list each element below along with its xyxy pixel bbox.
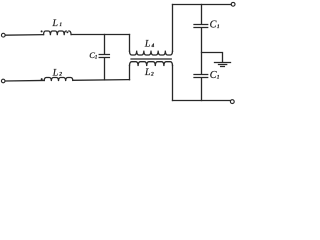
svg-text:C: C	[210, 70, 217, 81]
svg-text:2: 2	[151, 71, 154, 77]
svg-text:L: L	[52, 18, 58, 29]
transformer secondary right lead	[172, 65, 174, 100]
capacitor C1 top lead	[104, 35, 106, 55]
transformer primary left lead	[129, 35, 131, 52]
capacitor C2 plates	[194, 25, 208, 28]
transformer core	[131, 58, 171, 60]
capacitor C1 plates	[99, 55, 109, 58]
capacitor C3 plates	[194, 75, 208, 78]
wire top-right rail	[173, 4, 232, 6]
ground	[215, 63, 231, 67]
svg-text:1: 1	[95, 56, 97, 61]
svg-text:4: 4	[152, 42, 155, 49]
inductor L2	[44, 78, 73, 81]
wire mid vertical between C2 and C3	[201, 28, 203, 74]
input terminal bottom-left	[1, 79, 5, 83]
svg-text:L: L	[52, 67, 58, 78]
capacitor C3 bottom lead	[201, 78, 203, 101]
capacitor C1 bottom lead	[104, 58, 106, 80]
svg-text:C: C	[210, 20, 217, 31]
output terminal bottom-right	[230, 100, 234, 104]
wire bottom-mid	[73, 79, 130, 82]
dot L2 left	[41, 78, 43, 80]
dot L1 right	[66, 31, 68, 33]
gap in L1 4th bump top	[67, 30, 68, 32]
transformer primary right lead	[172, 5, 174, 52]
wire top-mid	[71, 34, 129, 36]
svg-text:1: 1	[217, 74, 220, 80]
wire top-left	[5, 34, 43, 37]
svg-text:L: L	[144, 67, 150, 78]
svg-text:2: 2	[59, 72, 62, 78]
transformer secondary winding L3	[130, 62, 173, 66]
dot L1 left	[41, 30, 43, 32]
transformer primary winding L4	[130, 51, 173, 55]
inductor L1	[44, 31, 72, 35]
input terminal top-left	[1, 33, 5, 37]
wire bottom-right rail	[173, 100, 231, 102]
svg-text:1: 1	[59, 22, 62, 28]
svg-text:1: 1	[217, 24, 220, 30]
capacitor C2 top lead	[201, 5, 203, 25]
output terminal top-right	[231, 2, 235, 6]
wire ground branch	[202, 53, 223, 63]
svg-text:L: L	[144, 39, 150, 50]
wire bottom-left	[5, 79, 44, 82]
transformer secondary left lead	[129, 65, 131, 79]
